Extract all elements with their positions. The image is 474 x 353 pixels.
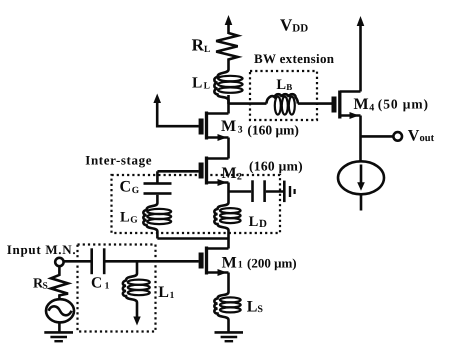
VDD arrow left — [225, 15, 233, 34]
label LB — [276, 77, 292, 93]
label M1 (200 um) — [222, 255, 297, 272]
inductor LB — [267, 94, 298, 114]
svg-text:1: 1 — [105, 282, 110, 292]
resistor RL — [216, 33, 238, 70]
svg-text:2: 2 — [237, 171, 242, 182]
svg-text:C: C — [91, 275, 102, 292]
label LG — [120, 210, 138, 226]
svg-text:(160 μm): (160 μm) — [247, 122, 299, 137]
label LL — [192, 74, 210, 91]
BW extension dotted box — [250, 71, 317, 120]
wire input to C1 — [64, 260, 92, 263]
wire below current source — [360, 194, 363, 210]
svg-text:L: L — [276, 77, 286, 93]
input matching dotted box — [78, 245, 156, 332]
label RL — [192, 36, 211, 55]
wire C1 to M1 gate — [106, 260, 199, 263]
svg-text:C: C — [120, 179, 132, 196]
ground (source) — [44, 331, 73, 342]
svg-text:L: L — [247, 298, 258, 315]
capacitor C1 — [90, 248, 105, 274]
svg-text:L: L — [204, 81, 210, 91]
inductor LS — [214, 292, 240, 332]
svg-text:S: S — [257, 304, 263, 315]
svg-text:1: 1 — [170, 291, 175, 301]
Vout terminal — [393, 132, 402, 141]
svg-text:3: 3 — [238, 124, 243, 135]
svg-text:4: 4 — [369, 102, 374, 113]
label M2 — [222, 158, 303, 182]
wire M3 source to M2 drain — [227, 138, 230, 159]
capacitor bypass — [251, 180, 266, 202]
svg-text:DD: DD — [292, 22, 308, 34]
svg-text:G: G — [130, 216, 138, 226]
inductor L1 — [123, 261, 150, 325]
resistor RS — [51, 266, 68, 299]
wire AC source to ground — [58, 322, 61, 332]
side ground — [283, 181, 296, 203]
svg-text:L: L — [249, 214, 259, 230]
M3 gate bias arrow — [153, 94, 198, 127]
transistor M3 — [199, 112, 229, 142]
svg-text:V: V — [408, 127, 420, 144]
svg-text:G: G — [132, 186, 140, 196]
svg-text:D: D — [259, 218, 267, 230]
label RS — [33, 276, 48, 291]
wire to Vout — [361, 135, 394, 138]
wire M1 source to LS — [227, 273, 230, 293]
wire CG to M2 gate — [157, 170, 198, 173]
inductor LG — [143, 203, 171, 239]
inductor LD — [214, 203, 240, 249]
transistor M4 — [332, 91, 361, 120]
wire LB to M4 gate — [298, 102, 332, 105]
svg-text:Input M.N.: Input M.N. — [7, 242, 77, 257]
svg-text:M: M — [354, 96, 369, 113]
svg-text:L: L — [192, 74, 202, 91]
svg-text:BW extension: BW extension — [254, 51, 335, 66]
wire cap to side ground — [266, 190, 283, 193]
svg-text:Inter-stage: Inter-stage — [85, 153, 152, 168]
wire M2 source node to bypass cap — [229, 190, 252, 193]
svg-text:S: S — [43, 282, 48, 292]
transistor M1 — [199, 247, 229, 277]
svg-text:L: L — [158, 284, 169, 301]
label M3 — [221, 118, 299, 138]
wire LG bottom to M1 drain column — [157, 237, 228, 240]
label C1 — [91, 275, 110, 292]
svg-text:L: L — [204, 45, 210, 55]
svg-text:M: M — [222, 165, 237, 182]
wire M2 source down to LD — [227, 183, 230, 203]
M4 source wire down — [359, 116, 362, 163]
svg-text:B: B — [286, 82, 292, 92]
label CG — [120, 179, 140, 196]
capacitor CG — [144, 171, 172, 203]
label M4 (50 um) — [354, 96, 429, 113]
input terminal — [55, 258, 63, 266]
label VDD — [280, 16, 308, 35]
inductor LL — [214, 70, 242, 105]
svg-text:M: M — [221, 118, 236, 135]
label LD — [249, 214, 267, 230]
wire node to LB — [229, 102, 267, 105]
svg-text:R: R — [192, 36, 205, 55]
ground (LS) — [215, 331, 244, 342]
svg-text:(50 μm): (50 μm) — [378, 97, 429, 112]
M4 drain wire and VDD arrow right — [357, 16, 365, 92]
inter-stage dotted box — [112, 175, 281, 233]
label LS — [247, 298, 264, 315]
svg-text:out: out — [420, 133, 435, 144]
label Vout — [408, 127, 435, 144]
svg-text:V: V — [280, 16, 293, 35]
transistor M2 — [199, 157, 229, 187]
svg-text:1: 1 — [238, 260, 243, 271]
wire M3 drain to node — [227, 95, 230, 114]
current source I1 — [338, 161, 384, 194]
svg-text:(200 μm): (200 μm) — [247, 256, 297, 271]
label L1 — [158, 284, 174, 301]
svg-text:M: M — [222, 255, 237, 272]
svg-text:L: L — [120, 210, 130, 226]
AC source VS — [46, 299, 74, 322]
svg-text:(160 μm): (160 μm) — [249, 158, 303, 173]
